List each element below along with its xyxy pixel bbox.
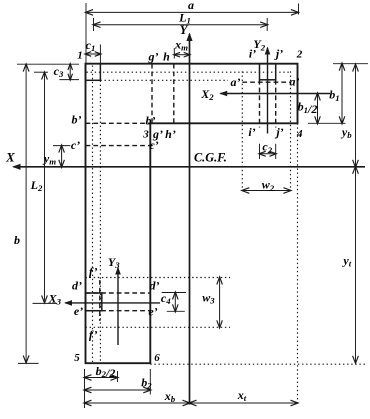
svg-text:h’: h’ (165, 127, 176, 141)
svg-text:c’: c’ (149, 138, 158, 152)
svg-text:4: 4 (296, 128, 303, 140)
svg-text:C.G.F.: C.G.F. (194, 151, 227, 165)
svg-text:2: 2 (296, 49, 303, 61)
svg-text:b: b (14, 233, 20, 247)
svg-text:3: 3 (142, 128, 149, 140)
svg-text:d’: d’ (150, 278, 160, 292)
svg-text:Y: Y (180, 23, 189, 37)
svg-text:j’: j’ (274, 47, 283, 61)
svg-text:i’: i’ (248, 125, 255, 139)
svg-text:e’: e’ (148, 304, 157, 318)
svg-text:a’: a’ (231, 75, 241, 89)
svg-text:b2/2: b2/2 (96, 364, 116, 380)
svg-text:j’: j’ (274, 125, 283, 139)
svg-text:d’: d’ (72, 279, 82, 293)
svg-text:h: h (163, 49, 170, 63)
svg-text:X: X (5, 151, 15, 165)
svg-text:f’: f’ (89, 264, 98, 278)
svg-text:f’: f’ (89, 327, 98, 341)
svg-text:a’: a’ (290, 74, 300, 88)
svg-text:b1/2: b1/2 (298, 100, 318, 116)
svg-text:5: 5 (74, 352, 80, 364)
svg-text:a: a (188, 0, 194, 12)
svg-text:1: 1 (77, 50, 83, 62)
svg-text:c’: c’ (71, 138, 80, 152)
svg-text:b’: b’ (72, 113, 82, 127)
svg-text:g’: g’ (148, 49, 159, 63)
svg-text:e’: e’ (74, 304, 83, 318)
svg-text:6: 6 (154, 352, 160, 364)
svg-text:b’: b’ (146, 113, 156, 127)
